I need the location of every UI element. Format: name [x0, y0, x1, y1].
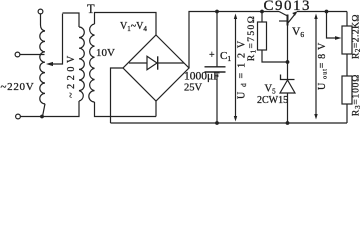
svg-text:V5: V5 — [265, 84, 277, 96]
svg-text:V6: V6 — [292, 26, 304, 39]
zener V5 cathode bar — [281, 75, 295, 80]
resistor R3 box — [342, 76, 352, 104]
bridge inner diode lead — [129, 62, 184, 64]
bridge rectifier diamond V1~V4 — [123, 35, 189, 101]
svg-text:+: + — [209, 50, 215, 61]
wire secondary top to bridge top vertex — [95, 13, 157, 36]
wire zener node down — [287, 62, 289, 80]
svg-text:R1=750Ω: R1=750Ω — [247, 15, 258, 61]
svg-text:V1~V4: V1~V4 — [120, 21, 147, 33]
wire wiper to primary top — [63, 13, 80, 27]
voltage arrow Ud (double-headed) — [235, 17, 237, 119]
wire bottom terminal to junction — [21, 116, 43, 118]
wire cap top — [216, 12, 218, 67]
wire bottom junction to primary bottom — [42, 101, 79, 117]
transistor emitter arrowhead — [292, 11, 297, 16]
transistor V6 base bar — [287, 15, 289, 26]
wire cap bottom — [216, 72, 218, 123]
bridge diode triangle — [147, 56, 157, 69]
autotransformer (variac) winding — [40, 31, 45, 104]
svg-text:~220V: ~220V — [66, 52, 77, 98]
resistor R1 box — [258, 22, 267, 50]
junction dot bottom-left — [40, 115, 44, 119]
wire bridge left vertex to bottom rail — [111, 68, 124, 123]
terminal bottom-left input — [16, 114, 21, 119]
wire R3 bottom to rail — [346, 104, 348, 123]
wire zener bottom — [287, 93, 289, 123]
bridge diode cathode bar — [157, 56, 159, 69]
svg-text:2CW15: 2CW15 — [257, 95, 288, 106]
wiper arrowhead into R2 — [335, 36, 342, 40]
bottom rail — [111, 122, 348, 124]
zener V5 triangle — [280, 80, 295, 93]
node wiper branch — [325, 10, 329, 14]
transistor V6 emitter — [288, 12, 297, 23]
terminal top-left input — [38, 9, 43, 14]
svg-text:1000μF: 1000μF — [184, 71, 220, 83]
wire variac bottom to junction — [43, 104, 46, 117]
resistor R2 box (potentiometer) — [342, 26, 352, 54]
wire secondary bottom AC line — [95, 102, 157, 117]
svg-text:R3=100Ω: R3=100Ω — [352, 74, 360, 116]
wire bridge right vertex to top rail — [189, 12, 279, 69]
variac wiper arrowhead — [46, 62, 53, 66]
svg-text:C9013: C9013 — [264, 0, 312, 14]
wire mid terminal to variac — [20, 54, 45, 56]
svg-text:25V: 25V — [184, 83, 203, 94]
svg-text:~220V: ~220V — [1, 81, 35, 93]
wire R2 to R3 — [346, 54, 348, 76]
svg-text:C1: C1 — [220, 50, 231, 63]
transistor base tick — [279, 20, 287, 22]
node zener bottom — [286, 121, 290, 125]
terminal mid-left input — [15, 52, 20, 57]
wire R1 top — [261, 12, 263, 23]
wire base down to zener node — [287, 26, 289, 63]
wire wiper branch — [327, 12, 336, 39]
svg-text:Uout=8V: Uout=8V — [317, 39, 329, 90]
svg-text:10V: 10V — [96, 47, 115, 59]
node capacitor top — [215, 10, 219, 14]
wire terminal to variac top — [41, 14, 46, 31]
top output rail — [297, 11, 347, 13]
variac wiper arm wire — [52, 14, 63, 64]
voltage arrow Uout (double-headed) — [315, 17, 317, 117]
node capacitor bottom — [215, 121, 219, 125]
wire bridge bottom vertex down — [155, 101, 157, 117]
capacitor C1 plates — [205, 67, 226, 72]
wire R1 bottom to base node — [262, 50, 288, 62]
transformer T secondary winding — [89, 24, 95, 102]
node base/zener/R1 — [286, 60, 290, 64]
transformer T primary winding — [79, 27, 84, 101]
svg-text:R2=2.2KΩ: R2=2.2KΩ — [352, 14, 360, 59]
transistor V6 collector kink — [279, 12, 288, 17]
node R1 top — [260, 10, 264, 14]
wire rail to R2 — [346, 12, 348, 27]
svg-text:T: T — [87, 2, 95, 16]
